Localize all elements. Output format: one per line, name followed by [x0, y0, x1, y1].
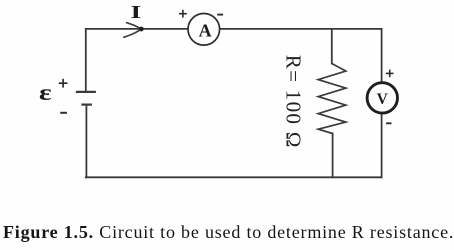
junction dot at arrow tip [139, 27, 144, 32]
battery - sign [60, 112, 67, 114]
resistor R (zigzag body) [318, 64, 346, 134]
wire top-right (ammeter to top-right corner) [220, 28, 382, 30]
wire right vertical lower (voltmeter to bottom-right corner) [381, 114, 383, 178]
wire battery - plate down to bottom-left corner [85, 105, 87, 178]
wire left vertical (top corner down to battery + plate) [85, 29, 87, 92]
wire resistor branch lower (resistor down to bottom wire) [332, 134, 334, 178]
wire right vertical upper (top-right corner to voltmeter) [381, 29, 383, 82]
ammeter + terminal sign [179, 10, 187, 18]
battery plate - (short) [81, 103, 92, 105]
ammeter A (meter circle) [188, 13, 220, 45]
current arrow (open arrowhead on top wire) [124, 23, 141, 38]
svg-text:ε: ε [39, 79, 52, 105]
ammeter - terminal sign [217, 14, 223, 16]
caption: Figure 1.5 [3, 222, 454, 243]
wire top-left (battery to ammeter) [86, 28, 188, 30]
svg-text:V: V [377, 91, 389, 108]
svg-text:I: I [130, 3, 141, 22]
voltmeter - terminal sign [386, 122, 391, 124]
battery + sign [59, 79, 68, 88]
voltmeter + terminal sign [386, 70, 394, 78]
svg-text:R= 100 Ω: R= 100 Ω [281, 55, 305, 149]
wire resistor branch upper (junction on top wire down to resistor) [331, 29, 333, 64]
svg-text:A: A [199, 21, 212, 41]
wire bottom (bottom-left corner to bottom-right corner) [86, 176, 382, 178]
battery plate + (long) [76, 91, 96, 93]
voltmeter V (meter circle, bold) [367, 83, 397, 113]
